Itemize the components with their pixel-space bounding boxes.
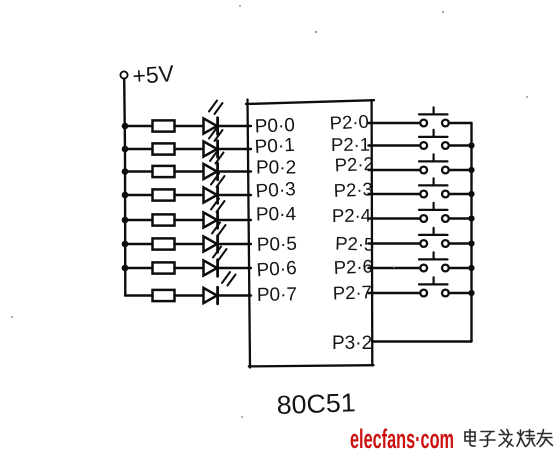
pin label P0.2 bbox=[256, 157, 296, 178]
LED (row P0.0) bbox=[204, 101, 223, 135]
LED (row P0.6) bbox=[204, 247, 227, 277]
pin label P0.4 bbox=[256, 204, 297, 226]
wire: switch to right bus (row P2.5) bbox=[449, 242, 472, 244]
pin label P2.6 bbox=[333, 255, 373, 278]
watermark: elecfans.com logo (red) bbox=[350, 424, 454, 454]
pin label P2.3 bbox=[333, 178, 373, 201]
svg-text:P0·3: P0·3 bbox=[255, 179, 296, 202]
resistor (row P0.5) bbox=[153, 238, 175, 249]
wire: resistor to LED (row P0.0) bbox=[175, 125, 204, 127]
svg-text:elecfans·com: elecfans·com bbox=[350, 424, 454, 454]
push-button switch (row P2.1) bbox=[419, 130, 449, 149]
pin label P0.0 bbox=[254, 115, 295, 137]
svg-text:P0·1: P0·1 bbox=[254, 135, 295, 158]
push-button switch (row P2.6) bbox=[419, 252, 449, 271]
svg-text:P2·1: P2·1 bbox=[331, 134, 370, 155]
wire: switch to right bus (row P2.3) bbox=[449, 193, 472, 195]
svg-text:P2·0: P2·0 bbox=[329, 111, 369, 134]
node: junction on +5V bus (row P0.4) bbox=[122, 217, 129, 224]
svg-text:P0·4: P0·4 bbox=[256, 204, 297, 226]
wire: LED to IC pin P0.7 bbox=[218, 294, 251, 296]
wire: +5V bus to resistor (row P0.0) bbox=[125, 125, 152, 127]
pin label P2.1 bbox=[331, 134, 370, 155]
wire: IC pin P2.2 to switch bbox=[369, 169, 421, 171]
svg-text:P3·2: P3·2 bbox=[332, 333, 372, 354]
wire: P3.2 to right bus bbox=[372, 340, 472, 342]
pin label P2.4 bbox=[332, 205, 371, 226]
pin label P2.7 bbox=[332, 281, 372, 303]
pin label P2.0 bbox=[329, 111, 369, 134]
wire: IC pin P2.3 to switch bbox=[369, 193, 421, 195]
wire: LED to IC pin P0.1 bbox=[218, 148, 251, 150]
svg-text:+5V: +5V bbox=[132, 60, 176, 89]
resistor (row P0.0) bbox=[153, 120, 175, 131]
node: junction on right bus (row P2.3) bbox=[468, 191, 474, 197]
node: junction on right bus (row P2.5) bbox=[468, 240, 474, 246]
wire: switch to right bus (row P2.2) bbox=[449, 169, 472, 171]
wire: switch to right bus (row P2.0) bbox=[449, 122, 472, 124]
wire: +5V bus to resistor (row P0.2) bbox=[125, 170, 152, 172]
wire: IC pin P2.7 to switch bbox=[369, 292, 421, 294]
svg-text:P2·3: P2·3 bbox=[333, 178, 373, 201]
resistor (row P0.2) bbox=[153, 166, 175, 177]
wire: IC pin P2.6 to switch bbox=[369, 267, 421, 269]
wire: LED to IC pin P0.2 bbox=[218, 170, 251, 172]
pin label P0.5 bbox=[256, 234, 297, 256]
wire: IC pin P2.1 to switch bbox=[369, 144, 421, 146]
wire: IC pin P2.5 to switch bbox=[369, 242, 421, 244]
LED (row P0.5) bbox=[204, 223, 226, 253]
svg-text:P0·5: P0·5 bbox=[256, 234, 297, 256]
LED (row P0.1) bbox=[204, 128, 223, 158]
node: junction on right bus (row P2.6) bbox=[468, 265, 474, 271]
power terminal +5V bbox=[120, 60, 175, 89]
watermark: chinese text dian zi fa shao you bbox=[465, 430, 553, 448]
IC U1 80C51 body bbox=[246, 100, 374, 368]
node: junction on +5V bus (row P0.3) bbox=[122, 192, 129, 199]
wire: switch to right bus (row P2.7) bbox=[449, 292, 472, 294]
wire: +5V bus to resistor (row P0.1) bbox=[125, 148, 152, 150]
resistor (row P0.3) bbox=[153, 189, 175, 200]
pin label P2.5 bbox=[335, 233, 375, 255]
push-button switch (row P2.0) bbox=[419, 107, 449, 126]
wire: resistor to LED (row P0.1) bbox=[175, 148, 204, 150]
svg-text:80C51: 80C51 bbox=[276, 387, 356, 420]
wire: switch to right bus (row P2.1) bbox=[449, 144, 472, 146]
wire: resistor to LED (row P0.5) bbox=[175, 243, 204, 245]
svg-text:P0·7: P0·7 bbox=[257, 284, 298, 306]
svg-text:P2·2: P2·2 bbox=[334, 153, 374, 176]
node: junction on +5V bus (row P0.1) bbox=[122, 146, 129, 153]
LED (row P0.3) bbox=[204, 174, 225, 204]
wire: switch to right bus (row P2.6) bbox=[449, 267, 472, 269]
pin label P2.2 bbox=[334, 153, 374, 176]
svg-text:P0·0: P0·0 bbox=[254, 115, 295, 137]
push-button switch (row P2.7) bbox=[419, 277, 449, 296]
label: IC part number 80C51 bbox=[276, 387, 356, 420]
push-button switch (row P2.2) bbox=[419, 154, 449, 173]
node: junction on +5V bus (row P0.6) bbox=[122, 265, 129, 272]
wire: LED to IC pin P0.5 bbox=[218, 243, 251, 245]
wire: +5V bus to resistor (row P0.7) bbox=[125, 294, 152, 296]
node: junction on right bus (row P2.2) bbox=[468, 167, 474, 173]
pin label P3.2 bbox=[332, 333, 372, 354]
pin label P0.6 bbox=[256, 258, 297, 282]
pin label P0.3 bbox=[255, 179, 296, 202]
wire: +5V bus to resistor (row P0.5) bbox=[125, 243, 152, 245]
wire: resistor to LED (row P0.2) bbox=[175, 170, 204, 172]
node: junction on right bus (row P2.7) bbox=[468, 290, 474, 296]
svg-text:P2·6: P2·6 bbox=[333, 255, 373, 278]
wire: +5V bus to resistor (row P0.3) bbox=[125, 194, 152, 196]
pin label P0.7 bbox=[257, 284, 298, 306]
resistor (row P0.7) bbox=[153, 290, 175, 301]
node: junction on +5V bus (row P0.5) bbox=[122, 241, 129, 248]
svg-text:P2·7: P2·7 bbox=[332, 281, 372, 303]
wire: +5V bus to resistor (row P0.6) bbox=[125, 267, 152, 269]
resistor (row P0.6) bbox=[153, 262, 175, 273]
wire: IC pin P2.0 to switch bbox=[369, 122, 421, 124]
pin label P0.1 bbox=[254, 135, 295, 158]
wire: resistor to LED (row P0.4) bbox=[175, 219, 204, 221]
svg-text:P0·2: P0·2 bbox=[256, 157, 296, 178]
wire: resistor to LED (row P0.3) bbox=[175, 194, 204, 196]
push-button switch (row P2.4) bbox=[419, 203, 449, 222]
push-button switch (row P2.5) bbox=[419, 228, 449, 247]
wire: resistor to LED (row P0.6) bbox=[175, 267, 204, 269]
wire: LED to IC pin P0.4 bbox=[218, 219, 251, 221]
svg-text:P0·6: P0·6 bbox=[256, 258, 297, 282]
node: junction on right bus (row P2.1) bbox=[468, 142, 474, 148]
resistor (row P0.4) bbox=[153, 214, 175, 225]
wire: LED to IC pin P0.6 bbox=[218, 267, 251, 269]
push-button switch (row P2.3) bbox=[419, 178, 449, 197]
wire: LED to IC pin P0.0 bbox=[218, 125, 251, 127]
LED (row P0.7) bbox=[204, 272, 236, 304]
svg-text:P2·4: P2·4 bbox=[332, 205, 371, 226]
wire: switch to right bus (row P2.4) bbox=[449, 217, 472, 219]
wire: LED to IC pin P0.3 bbox=[218, 194, 251, 196]
resistor (row P0.1) bbox=[153, 143, 175, 154]
wire: resistor to LED (row P0.7) bbox=[175, 294, 204, 296]
wire: right vertical bus bbox=[470, 123, 472, 342]
node: junction on +5V bus (row P0.2) bbox=[122, 168, 129, 175]
node: junction on +5V bus (row P0.0) bbox=[122, 123, 129, 130]
LED (row P0.4) bbox=[204, 199, 225, 229]
wire: +5V vertical bus bbox=[124, 79, 125, 296]
wire: IC pin P2.4 to switch bbox=[369, 217, 421, 219]
wire: +5V bus to resistor (row P0.4) bbox=[125, 219, 152, 221]
LED (row P0.2) bbox=[204, 150, 224, 180]
node: junction on right bus (row P2.4) bbox=[468, 215, 474, 221]
